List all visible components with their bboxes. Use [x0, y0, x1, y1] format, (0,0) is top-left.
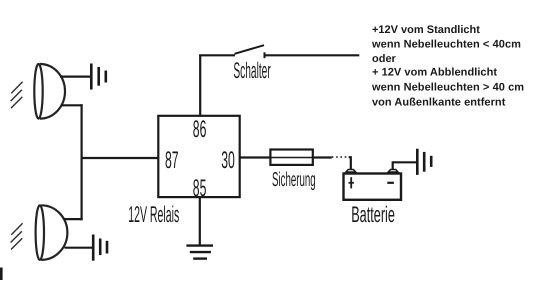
svg-text:Batterie: Batterie — [351, 202, 395, 227]
svg-text:30: 30 — [221, 147, 235, 174]
wire bus to lower lamp — [64, 218, 83, 220]
svg-text:wenn Nebelleuchten > 40 cm: wenn Nebelleuchten > 40 cm — [371, 82, 524, 94]
ground (lower left) — [93, 235, 107, 261]
svg-text:wenn Nebelleuchten < 40cm: wenn Nebelleuchten < 40cm — [371, 39, 521, 51]
ground (right of battery) — [417, 149, 431, 175]
battery G1 — [344, 170, 402, 200]
svg-text:12V Relais: 12V Relais — [128, 201, 179, 227]
svg-text:Sicherung: Sicherung — [272, 169, 316, 191]
wire fuse to battery solid — [313, 156, 332, 158]
wire battery minus to ground — [393, 162, 417, 169]
wire down to battery plus post — [349, 157, 351, 170]
fuse F1 — [270, 150, 312, 165]
svg-text:+ 12V vom Abblendlicht: + 12V vom Abblendlicht — [372, 67, 497, 79]
wire upper lamp lower exit to junction — [61, 104, 83, 106]
light rays of lamp E2 — [11, 223, 23, 249]
switch S1 contact tick — [264, 52, 266, 58]
wire vertical bus — [80, 104, 82, 220]
svg-text:86: 86 — [193, 116, 207, 143]
lamp E1 (upper fog light) — [34, 64, 65, 119]
wire fuse to battery dashed — [332, 156, 348, 158]
wire lower lamp to ground — [65, 247, 93, 249]
svg-text:Schalter: Schalter — [233, 58, 271, 83]
light rays of lamp E1 — [11, 82, 23, 108]
lamp E2 (lower fog light) — [36, 205, 68, 260]
switch S1 blade — [235, 45, 265, 54]
wire relay pin 30 to fuse — [239, 156, 270, 158]
wire relay pin 85 down to ground — [199, 197, 201, 245]
ground (below relay) — [186, 246, 213, 259]
wire switch left lead — [199, 54, 235, 56]
wire bus to relay pin 87 — [82, 157, 158, 159]
svg-text:+12V vom Standlicht: +12V vom Standlicht — [372, 24, 480, 36]
svg-text:87: 87 — [165, 147, 179, 174]
svg-text:von Außenlkante entfernt: von Außenlkante entfernt — [372, 96, 506, 108]
wire switch right lead — [265, 54, 360, 56]
wire upper lamp to ground — [60, 75, 91, 77]
svg-text:oder: oder — [372, 53, 397, 65]
wire relay pin 86 up to switch — [199, 55, 201, 116]
relay U1 box — [158, 116, 239, 197]
ground (upper left) — [91, 64, 106, 90]
